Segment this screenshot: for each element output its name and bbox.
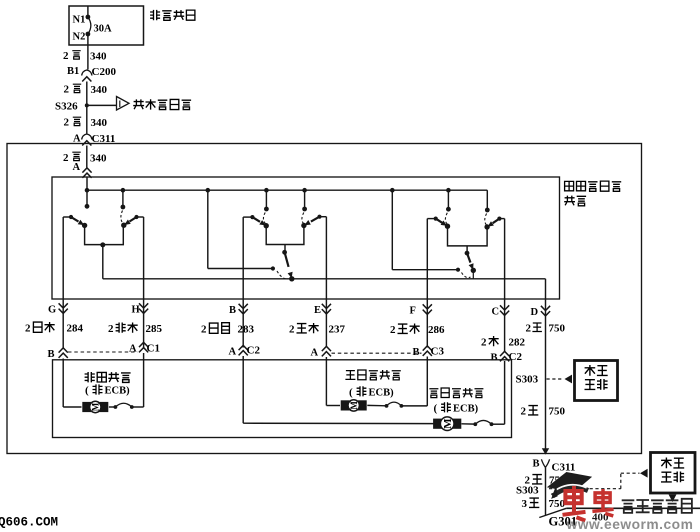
splice S303 lower — [516, 469, 648, 497]
digit remnant under watermark — [592, 512, 609, 524]
off-page arrow to passenger seat 至乘员座椅 — [87, 97, 191, 111]
connector C2 pin B — [491, 351, 523, 364]
connector C3 dashed body — [332, 352, 422, 354]
svg-text:M: M — [90, 402, 100, 411]
svg-text:C2: C2 — [509, 351, 523, 363]
svg-text:340: 340 — [91, 84, 108, 96]
svg-text:www.eeworm.com: www.eeworm.com — [566, 517, 694, 532]
wire bus to S3c contact — [392, 190, 458, 270]
svg-text:C311: C311 — [552, 462, 576, 474]
svg-text:A: A — [129, 344, 137, 355]
switch S2 blade a — [250, 213, 269, 229]
wire 340 C311 to seat switch — [63, 146, 107, 168]
svg-text:284: 284 — [67, 323, 84, 335]
switch S2 yoke — [266, 226, 304, 245]
wire label 2黄 282 — [481, 336, 526, 349]
svg-text:B: B — [48, 349, 55, 360]
svg-text:750: 750 — [549, 498, 566, 510]
svg-text:ECB): ECB) — [105, 386, 131, 397]
connector C200 — [67, 66, 116, 82]
ground G301 — [539, 508, 700, 528]
wire S1 contact b to pin H — [137, 217, 144, 299]
svg-text:ECB): ECB) — [453, 403, 479, 414]
terminal N2 — [73, 32, 91, 43]
svg-text:B1: B1 — [67, 66, 79, 77]
svg-text:340: 340 — [90, 153, 107, 165]
connector C311 pin A — [73, 133, 115, 146]
connector C1 dashed body — [68, 351, 138, 353]
wire pin A to bus — [86, 177, 88, 190]
svg-text:(: ( — [85, 385, 89, 397]
svg-text:750: 750 — [549, 323, 566, 335]
motor M2 front vertical adjust — [326, 361, 427, 411]
connector C3 pin B — [413, 346, 445, 362]
svg-text:3: 3 — [522, 498, 528, 510]
wire label 2棕黄 285 — [108, 323, 163, 336]
ground distribution box lower 接地分布 — [651, 453, 696, 503]
wire 340 S326 to C311 — [64, 105, 108, 133]
svg-text:(: ( — [434, 402, 438, 414]
pin H of seat switch — [132, 299, 149, 348]
connector C1 pin A — [129, 342, 160, 360]
wire label 2黑 750 bottom — [525, 475, 567, 487]
wire S3 contact a to pin F — [427, 219, 435, 299]
wire S2 contact b to pin E — [320, 217, 327, 299]
driver seat switch box 驾驶员座椅调节 — [52, 177, 560, 299]
wire S1 contact a to pin G — [63, 217, 71, 299]
switch S1 blade a — [69, 215, 87, 228]
switch S2 pole a — [264, 188, 269, 212]
label fuse box 熔断器盒 — [150, 10, 195, 20]
watermark eeworm logo cap — [548, 473, 591, 499]
common return wire to pin D — [103, 245, 546, 299]
switch S3 blade a — [434, 213, 451, 229]
svg-text:2: 2 — [64, 117, 70, 129]
svg-text:2: 2 — [25, 323, 31, 335]
connector C311 pin B bottom — [533, 459, 576, 474]
label 后垂直调节 带ECB — [429, 388, 483, 414]
wire label 2浅绿 284 — [25, 322, 84, 335]
switch S3 pole b — [485, 190, 490, 212]
svg-text:S326: S326 — [55, 101, 78, 113]
svg-text:A: A — [311, 348, 319, 359]
svg-text:2: 2 — [481, 337, 487, 349]
svg-text:C200: C200 — [92, 66, 117, 78]
svg-text:340: 340 — [90, 51, 107, 63]
wire bus to S2c contact — [206, 188, 273, 269]
wire label 2深绿 237 — [289, 323, 346, 336]
pin E of seat switch — [314, 299, 331, 348]
switch S3 yoke — [448, 226, 488, 246]
svg-text:340: 340 — [91, 117, 108, 129]
svg-text:N1: N1 — [73, 15, 86, 26]
pin F of seat switch — [410, 299, 432, 348]
watermark 虫虫 red — [563, 486, 614, 521]
svg-text:2: 2 — [526, 323, 532, 335]
switch S2 pole b — [302, 188, 307, 212]
motor M3 rear vertical adjust — [243, 360, 504, 431]
watermark Q606.COM — [0, 516, 58, 530]
wire label 2黑 750 lower — [521, 406, 566, 418]
seat adjuster assembly box — [53, 360, 512, 438]
svg-text:C3: C3 — [431, 346, 445, 358]
switch S3c center blade — [456, 246, 476, 279]
ground distribution box upper 接地分布 — [575, 361, 618, 401]
svg-text:A: A — [229, 347, 237, 358]
svg-text:C2: C2 — [247, 345, 261, 357]
motor M1 horizontal adjust — [63, 360, 143, 413]
watermark 电子下载站 — [622, 499, 692, 513]
svg-text:2: 2 — [63, 152, 69, 164]
svg-text:286: 286 — [428, 324, 445, 336]
svg-text:A: A — [73, 162, 81, 173]
svg-text:B: B — [413, 347, 420, 358]
wire label 2深绿 286 — [390, 324, 445, 337]
svg-text:2: 2 — [201, 324, 207, 336]
svg-text:M: M — [442, 418, 454, 429]
switch S1 pole a — [85, 190, 90, 209]
svg-text:Q606.COM: Q606.COM — [0, 516, 58, 530]
svg-text:2: 2 — [521, 406, 527, 418]
switch S2c center blade — [271, 245, 295, 282]
label 前垂直调节 带ECB — [345, 370, 400, 398]
connector C3 pin A — [311, 346, 332, 361]
splice S326 — [55, 101, 89, 113]
connector C1 pin B — [48, 348, 68, 360]
svg-text:F: F — [410, 306, 416, 317]
switch S1 blade b — [121, 211, 139, 228]
wire label 2黑 750 — [526, 323, 566, 335]
svg-text:2: 2 — [289, 324, 295, 336]
svg-text:285: 285 — [146, 323, 163, 335]
label 水平调节 带ECB — [85, 372, 131, 397]
watermark www.eeworm.com — [566, 517, 694, 532]
svg-text:C: C — [492, 307, 500, 318]
svg-text:2: 2 — [63, 50, 69, 62]
outer box body frame — [7, 144, 642, 454]
label 驾驶员座椅调节 — [564, 181, 621, 206]
wire 340 C200 to S326 — [64, 82, 108, 106]
svg-text:ECB): ECB) — [369, 387, 395, 398]
splice S303 upper — [516, 374, 573, 386]
svg-text:237: 237 — [329, 324, 346, 336]
pin C of seat switch — [492, 299, 510, 353]
svg-text:H: H — [132, 305, 140, 316]
svg-text:750: 750 — [549, 406, 566, 418]
svg-text:M: M — [349, 401, 359, 410]
wire 340 fuse to C200 — [63, 34, 107, 70]
connector C2 pin A — [229, 345, 261, 361]
fuse box — [69, 6, 144, 45]
svg-text:G: G — [48, 305, 56, 316]
svg-text:282: 282 — [509, 337, 526, 349]
switch S2 blade b — [301, 213, 321, 229]
svg-text:(: ( — [349, 386, 353, 398]
switch S3 pole a — [390, 188, 451, 212]
switch connector pin A — [73, 162, 92, 178]
wire C311 to G301 — [545, 467, 547, 515]
svg-text:S303: S303 — [516, 374, 539, 386]
wire S2 contact a to pin B — [243, 217, 252, 299]
svg-text:C1: C1 — [147, 343, 160, 355]
svg-text:S303: S303 — [516, 485, 539, 497]
wire label 2浅蓝 283 — [201, 323, 255, 336]
svg-text:N2: N2 — [73, 32, 86, 43]
svg-text:283: 283 — [238, 324, 255, 336]
bus wire B+ — [85, 188, 488, 193]
svg-text:D: D — [531, 307, 539, 318]
switch S1 pole b — [121, 188, 126, 210]
pin D of seat switch — [531, 299, 551, 322]
node S1 common — [100, 242, 105, 247]
svg-text:B: B — [533, 459, 540, 470]
svg-text:B: B — [491, 353, 498, 364]
svg-text:2: 2 — [64, 84, 70, 96]
svg-text:E: E — [314, 305, 321, 316]
svg-text:2: 2 — [390, 324, 396, 336]
wire label 3黑 750 bottom — [522, 498, 566, 510]
pin B of seat switch — [229, 299, 248, 348]
terminal N1 — [73, 15, 91, 26]
wire pin D to C311 — [542, 322, 549, 455]
fuse 30A — [88, 6, 112, 35]
switch S3 blade b — [484, 214, 501, 230]
pin G of seat switch — [48, 299, 68, 348]
svg-text:30A: 30A — [94, 24, 113, 35]
switch S1 yoke — [85, 225, 124, 244]
svg-text:B: B — [229, 305, 236, 316]
svg-text:2: 2 — [108, 323, 114, 335]
wire S3 contact b to pin C — [499, 219, 504, 299]
